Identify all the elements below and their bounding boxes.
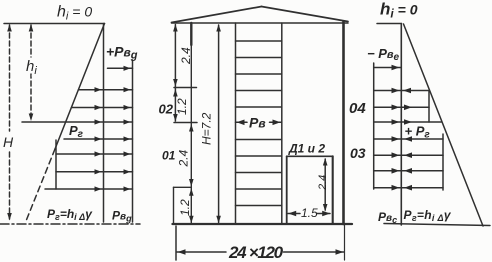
building: ladder rung y=205.5 <box>236 205 282 207</box>
building: tick at y=87.5 <box>174 87 197 89</box>
svg-text:H: H <box>3 134 14 150</box>
building: label о2 <box>159 102 174 117</box>
svg-text:1.2: 1.2 <box>178 199 192 216</box>
right diagram: suction diagonal <box>404 24 484 226</box>
left diagram: label Pвg <box>112 209 132 224</box>
right diagram: box top row y=139 (right of wall) <box>401 138 443 140</box>
left diagram: ground line (dash-dot) <box>0 223 140 225</box>
svg-text:02: 02 <box>159 102 174 117</box>
svg-text:01: 01 <box>162 149 176 163</box>
building: label Pв with outward arrows <box>236 121 248 123</box>
left diagram: pressure diagonal (dashed part) <box>26 149 55 221</box>
left diagram: level line / pressure row y=122 <box>22 121 133 123</box>
svg-text:2.4: 2.4 <box>179 47 193 65</box>
svg-text:Pг=hi Δγ: Pг=hi Δγ <box>404 208 452 223</box>
svg-text:hi = 0: hi = 0 <box>380 0 418 21</box>
svg-text:2.4: 2.4 <box>317 175 329 191</box>
right diagram: label +Pг <box>405 124 431 141</box>
right diagram: wall line <box>400 24 402 226</box>
building: eave line <box>172 22 349 24</box>
left diagram: top line (h_i = 0 level) <box>4 23 105 25</box>
svg-text:24 ×120: 24 ×120 <box>228 243 284 262</box>
left diagram: label h_i = 0 <box>57 4 92 23</box>
building: label 24x120 <box>228 243 284 262</box>
building: ladder rung y=90.5 <box>236 90 282 92</box>
building: lower dimension arrows on wall (2.4 / 1.2) <box>189 124 194 132</box>
building: ladder rung y=107 <box>236 106 282 108</box>
building: hatched wall left vertical <box>235 23 237 224</box>
building: width dimension 24x120 extension left <box>175 226 177 260</box>
building: ground line <box>173 223 353 225</box>
right diagram: suction row y=170.8 <box>374 170 443 172</box>
right diagram: label h_i = 0 <box>380 0 418 21</box>
building: ladder rung y=57.5 <box>236 57 282 59</box>
building: left wall (thin) <box>190 23 192 224</box>
building: label 1.2 (lower) <box>178 199 192 216</box>
building: door height dimension 2.4 <box>324 159 326 210</box>
building: upper dimension line (2.4 / 1.2) <box>174 25 176 122</box>
svg-text:1.5: 1.5 <box>301 206 318 220</box>
building: label О3 <box>350 145 366 161</box>
left diagram: pressure row y=68.3 (strip only) <box>108 67 133 69</box>
building: door Д1и2 top <box>287 155 333 157</box>
right diagram: label -Pвe <box>367 46 400 63</box>
building: width dimension 24x120 line <box>177 251 227 253</box>
svg-text:Pв: Pв <box>249 115 266 131</box>
right diagram: step vertical x=429 <box>428 91 430 123</box>
building: ladder rung y=74 <box>236 73 282 75</box>
building: label 2.4 (lower) <box>177 149 191 167</box>
left diagram: pressure diagonal (solid part) <box>55 24 105 150</box>
building: H=7.2 dimension line <box>218 25 220 223</box>
building: label о1 <box>162 149 176 163</box>
left diagram: pressure row y=189 <box>45 188 133 190</box>
left diagram: pressure row y=171.8 <box>56 171 133 173</box>
right diagram: box right edge x=443 <box>442 134 444 190</box>
svg-text:H=7.2: H=7.2 <box>200 112 214 145</box>
left diagram: pressure row y=107.5 <box>72 107 133 109</box>
building: ladder rung y=139.5 <box>236 139 282 141</box>
building: door Д1и2 right side <box>332 156 334 224</box>
right diagram: suction row y=67.5 <box>374 67 401 69</box>
left diagram: label H <box>3 134 14 150</box>
building: door Д1и2 left side <box>286 156 288 224</box>
svg-text:2.4: 2.4 <box>177 149 191 167</box>
building: label H=7.2 <box>200 112 214 145</box>
building: ladder rung y=172.5 <box>236 172 282 174</box>
right diagram: strip left edge <box>373 63 375 189</box>
building: foundation step vertical <box>173 187 175 224</box>
building: label О4 <box>349 100 366 117</box>
svg-text:1.2: 1.2 <box>175 98 189 115</box>
svg-text:03: 03 <box>350 145 366 161</box>
left diagram: label +Pвg <box>106 44 138 62</box>
right diagram: suction row y=155.2 <box>374 154 443 156</box>
building: foundation step ledge <box>174 186 192 188</box>
right diagram: ground line <box>384 224 490 226</box>
left diagram: label h_i <box>26 58 37 77</box>
building: hatched wall right vertical <box>281 23 283 224</box>
left diagram: label Pг = h_i Δγ <box>47 207 93 222</box>
left diagram: pressure step riser <box>55 140 57 189</box>
right diagram: suction row y=187.7 <box>374 187 443 189</box>
building: width dimension 24x120 extension right <box>344 225 346 260</box>
left diagram: pressure row y=139 <box>64 138 133 140</box>
building: roof left slope <box>172 7 262 23</box>
right diagram: label Pвc <box>378 210 397 225</box>
building: left wall top thick stub <box>190 23 192 45</box>
left diagram: wind strip right edge <box>132 60 134 222</box>
right diagram: top line <box>377 23 402 25</box>
right diagram: label Pг = h_i Δγ <box>404 208 452 223</box>
building: label 2.4 (upper) <box>179 47 193 65</box>
building: roof right slope <box>262 7 349 22</box>
building: right wall (thick) <box>342 22 345 225</box>
building: ladder rung y=41 <box>236 40 282 42</box>
svg-text:04: 04 <box>349 100 366 117</box>
svg-text:Pг=hi Δγ: Pг=hi Δγ <box>47 207 93 222</box>
left diagram: H dimension line <box>9 25 11 131</box>
building: ladder rung y=156 <box>236 155 282 157</box>
building: door width dimension 1.5 <box>288 213 300 215</box>
left diagram: pressure row y=89.7 <box>79 89 133 91</box>
right diagram: suction row y=90.5 with converging arrows <box>374 90 429 92</box>
right diagram: suction row y=107.3 <box>374 106 429 108</box>
building: level tick at y=122.5 <box>174 122 197 124</box>
right diagram: suction row y=122 <box>374 121 441 123</box>
left diagram: label Pг <box>69 123 84 140</box>
building: label Д1 и 2 <box>288 142 325 156</box>
right diagram: suction row y=139 <box>374 138 401 140</box>
svg-text:Д1 и 2: Д1 и 2 <box>288 142 325 156</box>
left diagram: wall line <box>103 24 105 223</box>
left diagram: h_i dimension line <box>30 25 32 120</box>
building: label 1.2 (upper) <box>175 98 189 115</box>
left diagram: pressure row y=154 <box>56 153 133 155</box>
building: ladder rung y=189 <box>236 188 282 190</box>
